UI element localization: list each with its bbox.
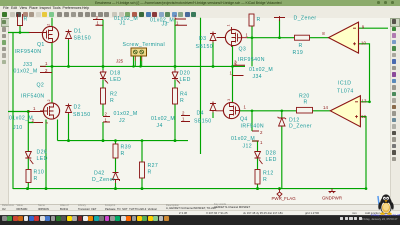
svg-text:R10: R10	[34, 170, 45, 176]
svg-text:PWR_FLAG: PWR_FLAG	[272, 196, 297, 201]
svg-text:J10: J10	[13, 125, 23, 131]
svg-text:R: R	[257, 17, 261, 23]
svg-text:R: R	[148, 170, 152, 176]
svg-text:D_Zener: D_Zener	[92, 177, 115, 183]
svg-text:SB150: SB150	[196, 44, 214, 50]
svg-text:2: 2	[260, 130, 263, 135]
svg-text:10: 10	[361, 40, 366, 45]
svg-text:D28: D28	[266, 151, 277, 157]
svg-text:SB150: SB150	[194, 119, 212, 125]
svg-text:R: R	[299, 43, 303, 49]
svg-text:2: 2	[105, 112, 108, 117]
svg-text:1: 1	[246, 33, 249, 38]
svg-text:Q1: Q1	[37, 42, 45, 48]
svg-text:R: R	[24, 17, 28, 23]
svg-text:J3: J3	[162, 22, 168, 28]
svg-text:IRF9540N: IRF9540N	[238, 57, 265, 63]
svg-text:IRF540N: IRF540N	[241, 124, 265, 130]
svg-text:D2: D2	[74, 105, 81, 111]
svg-text:R12: R12	[263, 171, 274, 177]
svg-text:GNDPWR: GNDPWR	[322, 195, 342, 200]
svg-text:TL074: TL074	[337, 89, 354, 95]
svg-text:Q4: Q4	[240, 117, 248, 123]
svg-text:1: 1	[227, 25, 231, 27]
svg-text:1: 1	[33, 106, 36, 111]
svg-text:J12: J12	[243, 144, 253, 150]
svg-text:Q2: Q2	[37, 83, 45, 89]
svg-text:LED: LED	[110, 77, 121, 83]
svg-text:01x02_M: 01x02_M	[249, 67, 273, 73]
svg-text:D_Zener: D_Zener	[294, 16, 317, 22]
svg-text:D42: D42	[94, 171, 105, 177]
svg-text:9: 9	[362, 25, 365, 30]
svg-text:01x02_M: 01x02_M	[231, 136, 255, 142]
svg-text:3: 3	[227, 99, 231, 101]
svg-text:J2: J2	[119, 118, 125, 124]
svg-text:J33: J33	[23, 62, 33, 68]
svg-text:8: 8	[322, 31, 325, 36]
svg-text:R: R	[121, 151, 125, 157]
svg-text:D1: D1	[74, 29, 81, 35]
svg-text:SB150: SB150	[73, 112, 91, 118]
svg-text:01x02_M: 01x02_M	[9, 115, 33, 121]
svg-text:R19: R19	[293, 50, 304, 56]
svg-text:R: R	[180, 98, 184, 104]
svg-text:1: 1	[176, 20, 179, 25]
svg-text:01x02_M: 01x02_M	[151, 116, 175, 122]
svg-text:14: 14	[323, 105, 328, 110]
svg-text:LED: LED	[37, 156, 48, 162]
svg-text:01x02_M: 01x02_M	[114, 16, 138, 22]
svg-text:J4: J4	[157, 123, 163, 129]
svg-text:2: 2	[47, 100, 51, 102]
svg-text:2: 2	[46, 24, 50, 26]
svg-text:J1: J1	[120, 21, 126, 27]
svg-text:LED: LED	[180, 77, 191, 83]
svg-text:LED: LED	[266, 157, 277, 163]
svg-text:01x02_M: 01x02_M	[14, 69, 38, 75]
svg-text:1: 1	[45, 61, 48, 66]
svg-text:R27: R27	[148, 163, 159, 169]
svg-text:D4: D4	[197, 111, 204, 117]
svg-text:J25: J25	[116, 59, 124, 64]
svg-text:SB150: SB150	[74, 36, 92, 42]
svg-text:12: 12	[361, 114, 366, 119]
svg-text:R: R	[263, 177, 267, 183]
svg-text:D18: D18	[110, 71, 121, 77]
svg-text:IC1D: IC1D	[338, 81, 351, 87]
svg-text:IRF9540N: IRF9540N	[15, 49, 42, 55]
svg-text:01x02_M: 01x02_M	[114, 111, 138, 117]
svg-text:R: R	[110, 98, 114, 104]
svg-text:1: 1	[182, 117, 185, 122]
svg-text:R: R	[304, 99, 308, 105]
svg-text:D3: D3	[199, 36, 206, 42]
svg-text:Q3: Q3	[239, 47, 247, 53]
svg-text:3: 3	[45, 122, 49, 124]
svg-text:IRF540N: IRF540N	[21, 94, 45, 100]
svg-text:R2: R2	[110, 92, 117, 98]
svg-text:13: 13	[362, 99, 367, 104]
svg-text:2: 2	[182, 111, 185, 116]
svg-text:R4: R4	[180, 92, 187, 98]
svg-text:J34: J34	[253, 74, 263, 80]
svg-text:Screw_Terminal: Screw_Terminal	[123, 42, 166, 48]
svg-text:D_Zener: D_Zener	[289, 124, 312, 130]
svg-text:1: 1	[244, 105, 247, 110]
svg-text:R: R	[34, 176, 38, 182]
svg-text:D26: D26	[37, 150, 48, 156]
svg-text:R39: R39	[121, 145, 132, 151]
svg-text:D20: D20	[180, 71, 191, 77]
svg-text:1: 1	[260, 140, 263, 145]
